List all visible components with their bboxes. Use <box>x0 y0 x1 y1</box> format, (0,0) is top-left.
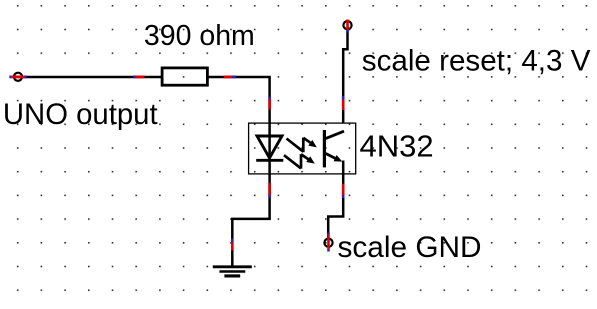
pin mark: phototransistor collector <box>342 96 345 110</box>
pin mark: bottom right terminal <box>327 233 330 252</box>
phototransistor emitter diagonal <box>326 153 340 160</box>
wire: UNO output to resistor left <box>18 76 161 79</box>
svg-text:scale GND: scale GND <box>338 231 482 264</box>
pin mark: ground pin <box>231 239 234 251</box>
pin mark: phototransistor emitter <box>342 184 345 198</box>
wire: LED cathode down, jog left, down to ground <box>232 175 269 266</box>
wire: emitter down, jog left, down to scale GND terminal <box>328 175 343 241</box>
wire: top terminal down with jog to collector <box>343 27 347 123</box>
pin mark: LED cathode (bottom of optocoupler) <box>268 183 271 198</box>
LED cathode bar <box>256 159 283 162</box>
LED triangle <box>257 136 282 158</box>
LED anode wire inside box <box>268 123 271 175</box>
phototransistor emitter wire inside box <box>342 161 345 176</box>
terminal: UNO output <box>14 73 22 81</box>
pin mark: resistor right pin <box>224 76 236 79</box>
svg-text:UNO output: UNO output <box>3 98 158 131</box>
light arrow lower <box>284 154 315 168</box>
svg-text:4N32: 4N32 <box>360 129 434 164</box>
svg-text:scale reset; 4,3 V: scale reset; 4,3 V <box>362 45 591 78</box>
pin mark: LED anode (top of optocoupler) <box>268 97 271 110</box>
light arrow upper <box>287 138 317 153</box>
pin mark: top terminal <box>346 20 349 33</box>
pin mark: left terminal (blue-red-blue horizontal) <box>9 76 26 79</box>
pin mark: resistor left pin <box>133 76 144 79</box>
terminal: scale reset <box>343 21 351 29</box>
phototransistor emitter arrowhead <box>334 155 343 162</box>
svg-text:390 ohm: 390 ohm <box>144 20 255 52</box>
ground symbol <box>213 267 252 276</box>
phototransistor collector diagonal <box>326 131 345 138</box>
resistor R 390 ohm <box>162 68 207 85</box>
optocoupler 4N32 box U1 <box>249 123 356 174</box>
phototransistor base bar <box>323 130 326 167</box>
terminal: scale GND <box>324 239 332 247</box>
wire: resistor right to corner and down to optocoupler <box>208 76 270 123</box>
